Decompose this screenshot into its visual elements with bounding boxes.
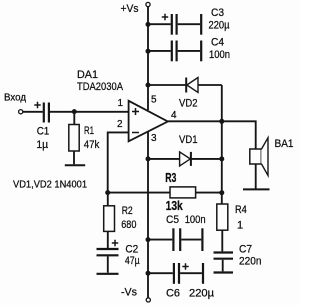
svg-text:220µ: 220µ	[209, 19, 231, 31]
svg-text:47k: 47k	[84, 139, 100, 151]
svg-text:BA1: BA1	[275, 138, 294, 150]
svg-text:VD2: VD2	[179, 98, 198, 110]
svg-text:220µ: 220µ	[189, 288, 215, 300]
svg-text:-Vs: -Vs	[121, 287, 137, 299]
svg-text:C3: C3	[211, 7, 224, 19]
svg-text:C7: C7	[239, 244, 252, 256]
svg-text:C4: C4	[211, 37, 224, 49]
svg-text:100n: 100n	[185, 214, 206, 226]
svg-text:R2: R2	[122, 205, 133, 217]
svg-text:13k: 13k	[166, 199, 184, 213]
svg-text:Вход: Вход	[4, 93, 26, 104]
svg-text:TDA2030A: TDA2030A	[77, 81, 124, 93]
svg-text:C6: C6	[166, 288, 180, 300]
svg-text:VD1: VD1	[179, 134, 198, 146]
svg-text:VD1,VD2 1N4001: VD1,VD2 1N4001	[13, 180, 87, 191]
svg-text:R1: R1	[84, 125, 94, 137]
svg-text:R4: R4	[235, 204, 247, 216]
svg-text:1: 1	[118, 98, 124, 109]
svg-text:1µ: 1µ	[36, 139, 48, 151]
svg-text:1: 1	[237, 219, 243, 231]
svg-text:C1: C1	[37, 126, 50, 138]
svg-text:2: 2	[117, 119, 123, 130]
svg-text:DA1: DA1	[77, 69, 98, 81]
svg-text:220n: 220n	[239, 256, 262, 268]
svg-text:47µ: 47µ	[125, 255, 140, 267]
svg-text:5: 5	[151, 95, 157, 106]
svg-text:680: 680	[121, 219, 136, 231]
svg-text:4: 4	[171, 110, 177, 121]
svg-text:100n: 100n	[209, 49, 230, 61]
svg-text:C2: C2	[125, 243, 138, 255]
svg-text:+Vs: +Vs	[121, 3, 139, 15]
svg-text:3: 3	[151, 133, 157, 144]
svg-text:C5: C5	[166, 214, 179, 226]
svg-text:R3: R3	[165, 171, 176, 185]
